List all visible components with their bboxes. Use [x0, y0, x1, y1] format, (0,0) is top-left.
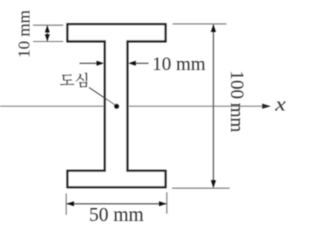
x-axis arrowhead — [262, 104, 271, 109]
height dim 100mm: bottom extension line — [172, 187, 230, 189]
x-axis (centroidal axis line) — [0, 105, 263, 107]
width dim 50mm: left arrowhead — [67, 201, 75, 206]
flange thickness dim: vertical dimension line — [46, 25, 48, 41]
width dim 50mm: right arrowhead — [159, 201, 167, 206]
label 도심 (centroid) — [60, 73, 87, 88]
height dim 100mm: vertical dimension line — [212, 25, 214, 188]
centroid dot — [114, 104, 119, 109]
svg-text:50 mm: 50 mm — [89, 205, 144, 226]
flange thickness dim: down arrowhead — [45, 34, 50, 41]
width dim 50mm: left extension line — [65, 193, 67, 215]
svg-text:10 mm: 10 mm — [152, 54, 206, 75]
svg-text:10 mm: 10 mm — [15, 10, 34, 58]
flange thickness dim: bottom extension line — [33, 41, 63, 43]
I-beam outline — [68, 24, 166, 187]
svg-text:x: x — [274, 94, 286, 115]
web thickness dim: left arrowhead pointing right — [97, 61, 105, 66]
height dim 100mm: up arrowhead — [211, 24, 216, 32]
width dim 50mm: right extension line — [166, 192, 168, 214]
height dim 100mm: top extension line — [173, 23, 227, 25]
web thickness dim: left arrow line — [80, 62, 100, 64]
leader line from 도심 to centroid — [89, 88, 115, 105]
flange thickness dim: top extension line — [33, 24, 63, 26]
height dim 100mm: down arrowhead — [211, 180, 216, 188]
width dim 50mm: dimension line — [67, 203, 167, 205]
svg-text:100 mm: 100 mm — [226, 70, 247, 132]
flange thickness dim: up arrowhead — [45, 25, 50, 32]
web thickness dim: right arrow line — [134, 62, 149, 64]
web thickness dim: right arrowhead pointing left — [128, 61, 136, 66]
